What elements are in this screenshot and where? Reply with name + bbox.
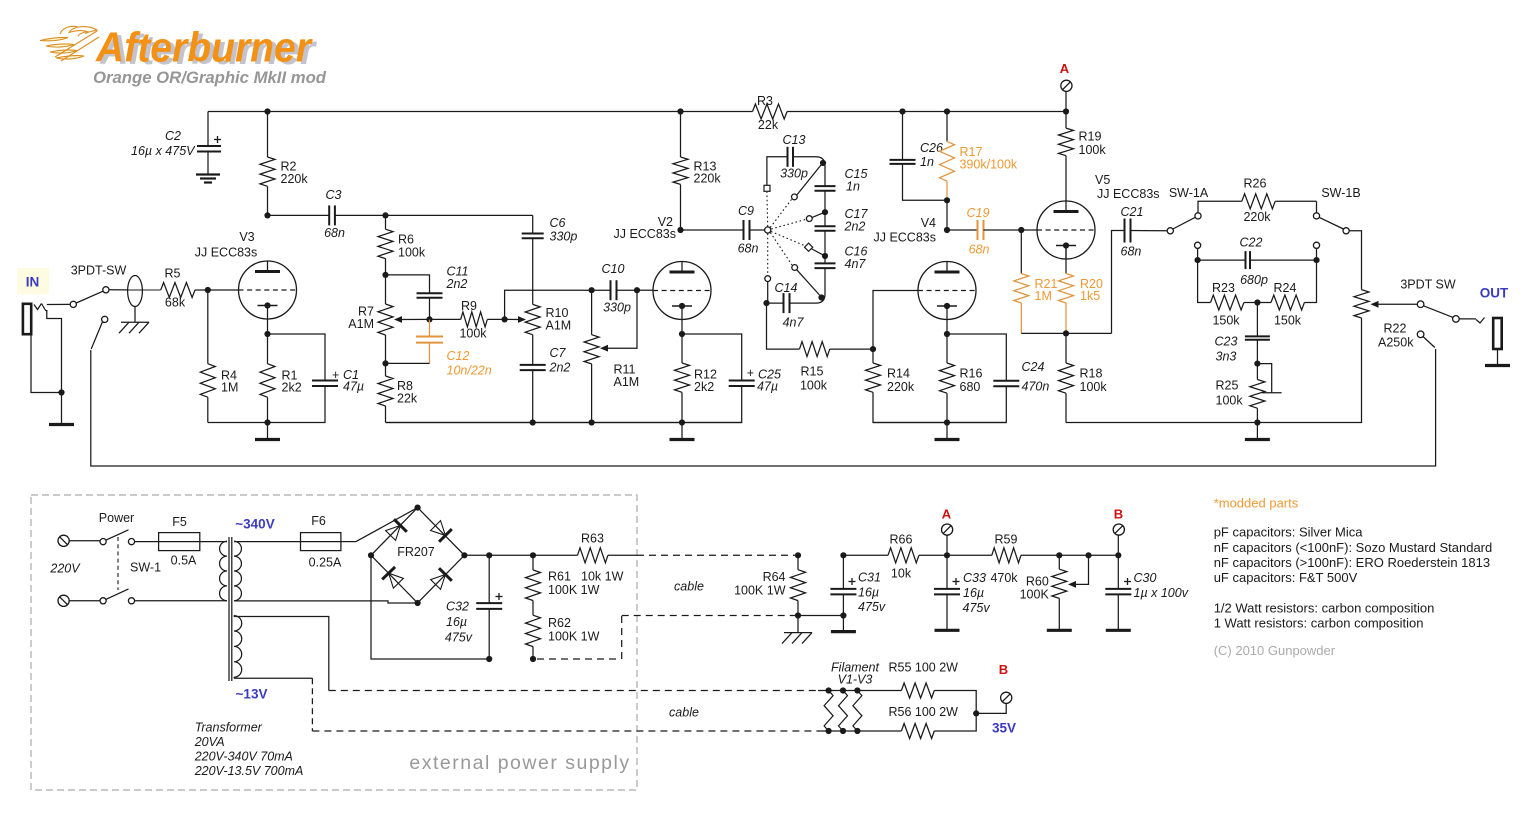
- svg-text:220k: 220k: [281, 172, 309, 186]
- svg-text:16µ x 475V: 16µ x 475V: [131, 144, 196, 158]
- svg-text:Orange OR/Graphic MkII mod: Orange OR/Graphic MkII mod: [93, 69, 327, 87]
- node n2: [822, 209, 828, 215]
- label 220V: [49, 562, 81, 576]
- svg-text:R18: R18: [1080, 367, 1103, 381]
- label C21: [1121, 205, 1144, 259]
- svg-text:cable: cable: [669, 706, 699, 720]
- terminal mains N: [58, 595, 69, 606]
- rotary contact 1 (square): [764, 185, 770, 191]
- label IN highlight: [17, 268, 49, 294]
- resistor R18: [1059, 333, 1074, 422]
- svg-text:V4: V4: [921, 216, 936, 230]
- label R18: [1080, 367, 1108, 395]
- svg-text:220k: 220k: [694, 172, 722, 186]
- wire tip-shunt: [47, 310, 62, 393]
- svg-text:4n7: 4n7: [845, 257, 867, 271]
- resistor R3: [753, 104, 788, 119]
- wire n3-contact4: [811, 249, 825, 257]
- svg-text:JJ ECC83s: JJ ECC83s: [873, 231, 936, 245]
- label R62: [548, 616, 600, 644]
- label C11: [446, 265, 469, 292]
- svg-text:10k 1W: 10k 1W: [581, 570, 624, 584]
- svg-text:C10: C10: [602, 262, 625, 276]
- svg-text:IN: IN: [26, 275, 40, 290]
- label terminal A: [1060, 61, 1070, 76]
- logo flame icon: [40, 26, 99, 61]
- cable filament lower: [312, 730, 818, 732]
- svg-text:3PDT SW: 3PDT SW: [1400, 278, 1456, 292]
- label R11: [614, 363, 640, 390]
- tube V5 JJ ECC83s: [1037, 201, 1095, 259]
- resistor R24: [1257, 260, 1316, 310]
- label C26: [920, 141, 943, 169]
- label R22: [1378, 322, 1414, 350]
- capacitor C33: [934, 555, 960, 630]
- node R23-R24: [1254, 299, 1260, 305]
- capacitor C30: [1105, 555, 1131, 630]
- diode D2: [431, 521, 452, 542]
- svg-text:R22: R22: [1384, 322, 1407, 336]
- wire filament lower: [818, 730, 901, 732]
- capacitor C16: [790, 256, 836, 303]
- svg-text:SW-1A: SW-1A: [1169, 186, 1209, 200]
- svg-text:JJ ECC83s: JJ ECC83s: [613, 227, 676, 241]
- svg-text:C14: C14: [775, 281, 798, 295]
- svg-text:C3: C3: [326, 188, 342, 202]
- label SW-1: [130, 561, 161, 575]
- ground stage4: [1245, 423, 1270, 440]
- svg-text:150k: 150k: [1212, 314, 1240, 328]
- resistor R1: [260, 334, 275, 423]
- svg-text:V5: V5: [1095, 173, 1110, 187]
- node C10 right: [634, 287, 640, 293]
- svg-text:R14: R14: [887, 367, 910, 381]
- label modded parts: [1214, 496, 1299, 511]
- label R8: [397, 379, 418, 406]
- svg-text:A1M: A1M: [348, 317, 374, 331]
- capacitor C9: [744, 220, 750, 240]
- node V2 anode: [677, 227, 683, 233]
- wire bridge bottom to 340V: [234, 601, 418, 603]
- node R15-R14: [870, 346, 876, 352]
- label 3PDT SW: [1400, 278, 1456, 292]
- svg-text:C21: C21: [1121, 205, 1144, 219]
- diode D3: [382, 567, 403, 588]
- label C10: [602, 262, 631, 315]
- wire mains N: [69, 600, 100, 602]
- svg-text:R66: R66: [890, 533, 913, 547]
- label C31: [858, 571, 886, 615]
- external power supply box: [31, 495, 637, 790]
- svg-text:SW-1: SW-1: [130, 561, 161, 575]
- label terminal A psu: [942, 507, 952, 522]
- resistor R14: [866, 349, 948, 422]
- capacitor C19 (modded): [947, 220, 1021, 240]
- label OUT: [1480, 286, 1509, 301]
- svg-text:C26: C26: [920, 141, 943, 155]
- svg-text:~13V: ~13V: [236, 687, 268, 702]
- transformer core: [229, 537, 232, 681]
- svg-text:47µ: 47µ: [343, 380, 364, 394]
- svg-text:330p: 330p: [603, 301, 631, 315]
- svg-text:+: +: [747, 366, 754, 380]
- resistor R56: [901, 713, 976, 738]
- diode D1: [386, 519, 407, 540]
- label R4: [221, 369, 238, 395]
- svg-text:B: B: [999, 662, 1008, 677]
- svg-text:220k: 220k: [1243, 210, 1271, 224]
- svg-text:68k: 68k: [165, 296, 186, 310]
- wire V3 grid: [208, 289, 239, 291]
- capacitor C13: [767, 147, 825, 186]
- cable 0V wire: [537, 616, 798, 660]
- svg-text:external power supply: external power supply: [409, 752, 630, 774]
- svg-text:R6: R6: [398, 233, 414, 247]
- wire bridge minus: [371, 555, 489, 659]
- svg-text:100k: 100k: [1216, 394, 1244, 408]
- node A psu: [944, 552, 950, 558]
- note nF capacitors big: [1214, 555, 1490, 570]
- svg-text:V3: V3: [239, 230, 254, 244]
- resistor R13: [673, 112, 688, 231]
- svg-text:100k: 100k: [398, 246, 426, 260]
- node rail2-R11: [589, 419, 595, 425]
- label C3: [324, 188, 345, 240]
- label R16: [960, 367, 983, 395]
- svg-text:Power: Power: [99, 511, 134, 525]
- resistor R2: [260, 112, 275, 216]
- resistor R63: [578, 548, 638, 563]
- label C6: [550, 216, 578, 244]
- svg-text:A250k: A250k: [1378, 336, 1414, 350]
- wire rail3: [873, 422, 1006, 424]
- svg-text:220V: 220V: [49, 562, 81, 576]
- label IN: [26, 275, 40, 290]
- svg-text:220V-13.5V 700mA: 220V-13.5V 700mA: [194, 764, 304, 778]
- label C22: [1240, 236, 1268, 288]
- wire mains N to primary: [135, 600, 227, 602]
- node C26-R17: [944, 197, 950, 203]
- svg-text:*modded parts: *modded parts: [1214, 496, 1299, 511]
- wire bypass: [91, 349, 1436, 466]
- heater V3: [853, 687, 862, 734]
- logo shadow: [99, 26, 318, 73]
- label Filament: [831, 661, 879, 687]
- label C33: [963, 571, 991, 615]
- chassis ground input: [119, 322, 149, 333]
- svg-text:68n: 68n: [1121, 245, 1142, 259]
- wire n4-contact5: [797, 270, 820, 295]
- resistor R26: [1242, 194, 1317, 209]
- label R17: [960, 145, 1018, 172]
- node C23-R25: [1254, 361, 1260, 367]
- node rail2-R12: [679, 419, 685, 425]
- label SW-1A: [1169, 186, 1209, 200]
- node V4 cathode: [944, 331, 950, 337]
- svg-text:3PDT-SW: 3PDT-SW: [71, 264, 127, 278]
- potentiometer R60: [1052, 555, 1089, 630]
- label Transformer block: [194, 721, 304, 779]
- label cable upper: [674, 580, 704, 594]
- node C31 bottom: [840, 612, 846, 618]
- label C1: [332, 368, 364, 394]
- svg-text:FR207: FR207: [397, 545, 435, 559]
- note uF capacitors: [1214, 570, 1358, 585]
- svg-text:cable: cable: [674, 580, 704, 594]
- svg-text:R9: R9: [461, 299, 477, 313]
- svg-text:C2: C2: [165, 129, 181, 143]
- svg-text:A: A: [942, 507, 952, 522]
- ground stage3: [935, 423, 960, 440]
- resistor R4: [200, 290, 215, 423]
- node C11-C12-R9: [426, 316, 432, 322]
- label F5: [171, 515, 197, 568]
- resistor R19: [1059, 112, 1074, 202]
- svg-text:C6: C6: [550, 216, 566, 230]
- label C23: [1215, 335, 1238, 364]
- label C32: [445, 600, 473, 645]
- rotary contact 5: [792, 265, 798, 271]
- capacitor C21: [1112, 219, 1168, 334]
- capacitor C17: [815, 212, 836, 256]
- capacitor C7: [520, 335, 546, 423]
- node C22 left: [1195, 257, 1201, 263]
- heater V1: [824, 687, 833, 734]
- label C24: [1022, 360, 1050, 394]
- capacitor C1: [208, 334, 338, 423]
- label R66: [890, 533, 913, 581]
- label R14: [887, 367, 915, 395]
- wire switch to R5: [109, 289, 161, 291]
- OUT jack tip: [1476, 318, 1485, 324]
- ferrite bead: [128, 276, 143, 307]
- svg-text:22k: 22k: [758, 118, 779, 132]
- capacitor C12 (modded): [416, 319, 443, 363]
- node R9-wiper: [502, 316, 508, 322]
- svg-text:3n3: 3n3: [1216, 350, 1237, 364]
- label R13: [694, 160, 722, 186]
- wire R9 up-over: [505, 290, 592, 319]
- svg-text:100K: 100K: [1020, 588, 1050, 602]
- svg-text:35V: 35V: [992, 721, 1016, 736]
- svg-text:C31: C31: [858, 571, 881, 585]
- wire cathode junction: [1021, 332, 1111, 334]
- node C22 right: [1313, 257, 1319, 263]
- potentiometer R25: [1250, 364, 1282, 423]
- label SW-1B: [1321, 186, 1360, 200]
- node R6-R7: [382, 272, 388, 278]
- svg-text:(C) 2010 Gunpowder: (C) 2010 Gunpowder: [1214, 643, 1336, 658]
- svg-text:1/2 Watt resistors: carbon com: 1/2 Watt resistors: carbon composition: [1214, 601, 1435, 616]
- node n3: [822, 253, 828, 259]
- node C30 top: [1115, 552, 1121, 558]
- node V5 grid: [1018, 227, 1024, 233]
- svg-text:1M: 1M: [1035, 289, 1052, 303]
- svg-text:390k/100k: 390k/100k: [960, 158, 1018, 172]
- capacitor C22: [1198, 251, 1317, 269]
- label R21: [1035, 277, 1058, 303]
- svg-text:R61: R61: [548, 570, 571, 584]
- wire F6 to bridge: [356, 508, 418, 542]
- transformer secondary 13V: [234, 616, 242, 679]
- svg-text:V1-V3: V1-V3: [838, 673, 873, 687]
- ground stage1: [255, 423, 280, 440]
- svg-text:100K 1W: 100K 1W: [548, 583, 600, 597]
- svg-text:C24: C24: [1022, 360, 1045, 374]
- switch 3PDT in pole1: [70, 287, 109, 308]
- resistor R23: [1198, 260, 1258, 310]
- svg-text:C23: C23: [1215, 335, 1238, 349]
- label R24: [1274, 281, 1302, 328]
- svg-text:2n2: 2n2: [844, 220, 866, 234]
- svg-text:R19: R19: [1079, 130, 1102, 144]
- svg-text:1n: 1n: [920, 155, 934, 169]
- label cable lower: [669, 706, 699, 720]
- wire C10 to V2 grid: [637, 289, 653, 291]
- node rail4 gnd: [1254, 419, 1260, 425]
- svg-text:R16: R16: [960, 367, 983, 381]
- node n4: [818, 294, 824, 300]
- node R64 top: [795, 552, 801, 558]
- svg-text:220V-340V 70mA: 220V-340V 70mA: [194, 750, 293, 764]
- label C2: [131, 129, 196, 158]
- resistor R21 (modded): [1014, 230, 1029, 333]
- label R20: [1080, 277, 1103, 303]
- svg-text:4n7: 4n7: [783, 316, 805, 330]
- svg-text:2n2: 2n2: [446, 277, 468, 291]
- capacitor C10: [592, 280, 637, 300]
- label F6: [309, 514, 342, 570]
- Afterburner title: [95, 24, 314, 71]
- svg-text:10n/22n: 10n/22n: [447, 364, 492, 378]
- svg-text:1k5: 1k5: [1080, 289, 1100, 303]
- svg-text:JJ ECC83s: JJ ECC83s: [195, 246, 258, 260]
- capacitor C25: [386, 334, 755, 423]
- wire B+ top rail: [208, 111, 1066, 113]
- svg-text:1 Watt resistors: carbon compo: 1 Watt resistors: carbon composition: [1214, 616, 1424, 631]
- cable filament upper: [329, 690, 818, 692]
- wire rail4: [1066, 318, 1362, 423]
- node bridge top: [415, 505, 421, 511]
- label R6: [398, 233, 426, 260]
- svg-text:R26: R26: [1244, 177, 1267, 191]
- label R3: [757, 94, 779, 132]
- svg-text:100k: 100k: [1080, 380, 1108, 394]
- svg-text:R5: R5: [165, 267, 181, 281]
- resistor R9: [430, 312, 505, 327]
- svg-text:R25: R25: [1216, 379, 1239, 393]
- node rail-R19: [1063, 108, 1069, 114]
- note nF capacitors small: [1214, 540, 1493, 555]
- svg-text:A1M: A1M: [546, 319, 572, 333]
- wire n2-contact3: [812, 212, 825, 217]
- wire mains L: [69, 540, 100, 542]
- label C16: [845, 245, 868, 272]
- svg-text:C22: C22: [1240, 236, 1263, 250]
- wire A-R59: [947, 554, 992, 556]
- svg-text:C19: C19: [967, 206, 990, 220]
- svg-text:470k: 470k: [990, 571, 1018, 585]
- resistor R20 (modded): [1059, 246, 1074, 334]
- svg-text:pF capacitors: Silver Mica: pF capacitors: Silver Mica: [1214, 525, 1364, 540]
- resistor R8: [378, 363, 393, 422]
- svg-text:330p: 330p: [780, 167, 808, 181]
- ground OUT jack: [1485, 349, 1510, 366]
- label R59: [990, 533, 1018, 586]
- label external power supply: [409, 752, 630, 774]
- node filament out: [973, 710, 979, 716]
- fuse F5: [135, 533, 227, 551]
- wire filament upper: [818, 690, 901, 692]
- heater V2: [839, 687, 848, 734]
- label V3: [195, 230, 258, 260]
- switch SW-1B: [1313, 201, 1361, 289]
- svg-text:R23: R23: [1212, 281, 1235, 295]
- label V5: [1095, 173, 1160, 201]
- svg-text:47µ: 47µ: [757, 380, 778, 394]
- svg-text:150k: 150k: [1274, 314, 1302, 328]
- switch SW-1 pole2: [100, 589, 135, 604]
- svg-text:68n: 68n: [738, 242, 759, 256]
- node R60 wiper: [1085, 552, 1091, 558]
- label V2: [613, 215, 676, 241]
- switch contacts C22 row: [1195, 242, 1320, 260]
- label C30: [1134, 571, 1189, 600]
- svg-text:100K 1W: 100K 1W: [734, 584, 786, 598]
- wire to V4 anode: [946, 200, 948, 230]
- label R25: [1216, 379, 1244, 408]
- rotary common contact: [765, 227, 771, 233]
- capacitor C23: [1245, 303, 1270, 364]
- node V3 cathode: [264, 331, 270, 337]
- svg-text:475v: 475v: [445, 631, 473, 645]
- fuse F6: [301, 533, 357, 551]
- svg-text:1M: 1M: [221, 381, 238, 395]
- ground stage2: [670, 423, 695, 440]
- diode D4: [431, 568, 452, 589]
- terminal A (psu): [942, 524, 953, 555]
- ground R60: [1047, 629, 1072, 632]
- label V4: [873, 216, 936, 245]
- potentiometer R22 A250k: [1354, 290, 1417, 318]
- node C31 top: [840, 552, 846, 558]
- switch 3PDT in pole2: [91, 316, 108, 349]
- ground C31: [831, 630, 856, 633]
- node R20-R18: [1063, 330, 1069, 336]
- node IN gnd: [58, 389, 64, 395]
- bridge rectifier FR207 frame: [371, 508, 464, 603]
- ground C30: [1106, 629, 1131, 632]
- node bridge left: [368, 552, 374, 558]
- transformer secondary 340V: [234, 541, 301, 601]
- node stage1 gnd: [264, 419, 270, 425]
- capacitor C2: [197, 112, 221, 175]
- svg-text:1µ x 100v: 1µ x 100v: [1134, 586, 1189, 600]
- svg-text:~340V: ~340V: [235, 517, 274, 532]
- wire bridge plus: [464, 554, 577, 556]
- wire C12 bottom: [386, 362, 430, 364]
- transformer primary: [220, 541, 227, 601]
- node V3 grid: [205, 287, 211, 293]
- svg-text:0.25A: 0.25A: [309, 556, 342, 570]
- rotary contact 4 (diamond): [804, 243, 812, 251]
- node R6 top: [382, 212, 388, 218]
- resistor R17 (modded): [940, 112, 955, 201]
- label R26: [1243, 177, 1271, 225]
- label R15: [800, 365, 828, 393]
- node rail-R17: [944, 108, 950, 114]
- node rail-C26: [899, 108, 905, 114]
